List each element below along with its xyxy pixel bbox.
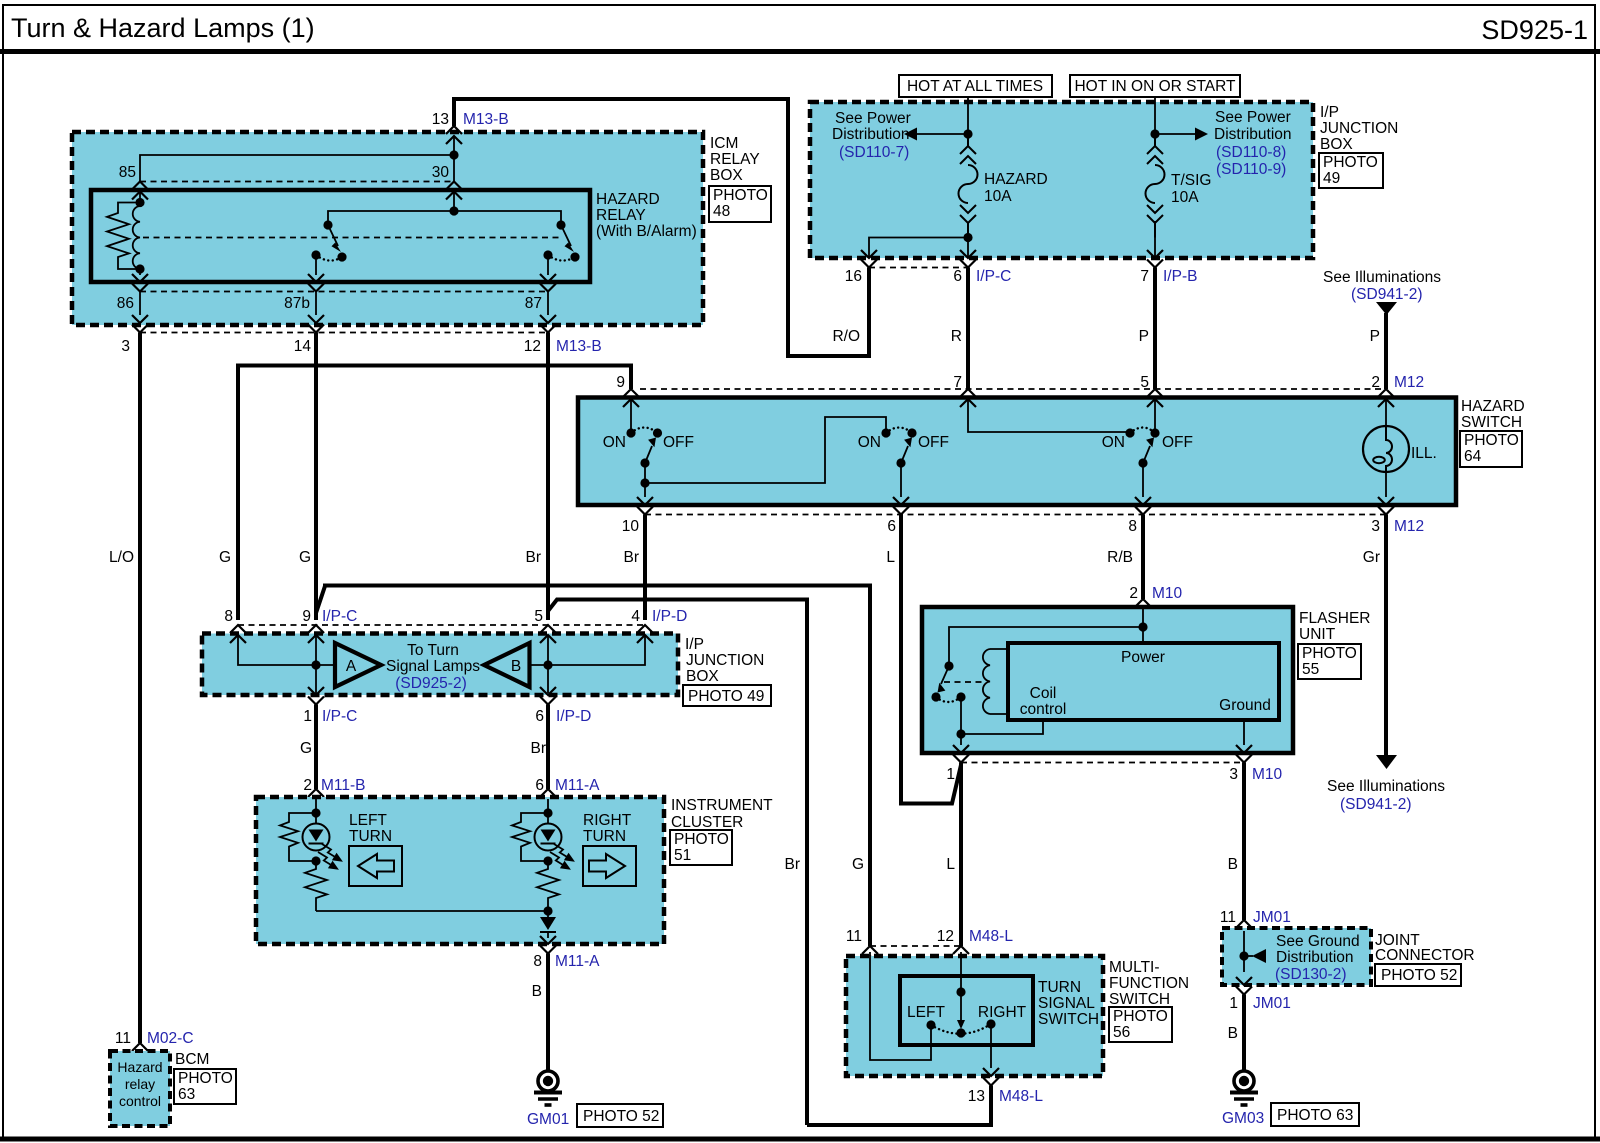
svg-text:BCM: BCM xyxy=(175,1051,209,1068)
svg-text:Br: Br xyxy=(526,549,542,566)
node coil top xyxy=(135,198,144,207)
left arrow icon xyxy=(349,846,402,886)
arrow see power distribution SD110-8/9 xyxy=(1195,128,1208,141)
node hazard fuse output xyxy=(963,233,972,242)
photo 55 box xyxy=(1298,644,1361,679)
switch 3 OFF contact xyxy=(1150,428,1159,437)
wire B flasher pin3 to joint connector xyxy=(1242,763,1246,921)
wire pin30 into relay xyxy=(453,192,455,211)
svg-text:Distribution: Distribution xyxy=(1276,949,1354,966)
node output xyxy=(543,906,552,915)
switch 2 arm pivot xyxy=(896,458,905,467)
arrow see ground distribution xyxy=(1252,949,1266,963)
svg-text:1: 1 xyxy=(1229,995,1238,1012)
node t/sig feed xyxy=(1150,129,1159,138)
svg-text:14: 14 xyxy=(294,338,312,355)
wire pin13 to Br riser xyxy=(807,1086,991,1126)
svg-text:8: 8 xyxy=(224,608,233,625)
LED left turn xyxy=(303,824,330,851)
flasher inner module box xyxy=(1008,643,1279,720)
wire pin14 G to I/P pin 9 xyxy=(314,333,318,621)
svg-text:Gr: Gr xyxy=(1363,549,1380,566)
relay contact 87 xyxy=(543,250,552,259)
wire to diode xyxy=(547,908,549,917)
svg-text:I/P: I/P xyxy=(1320,104,1339,121)
I/P junction box (middle) enclosure xyxy=(202,634,678,696)
svg-text:L/O: L/O xyxy=(109,549,134,566)
connector pin 5 xyxy=(540,625,556,643)
svg-text:Distribution: Distribution xyxy=(832,126,910,143)
svg-text:(SD941-2): (SD941-2) xyxy=(1340,796,1412,813)
svg-text:UNIT: UNIT xyxy=(1299,626,1336,643)
svg-text:5: 5 xyxy=(1140,374,1149,391)
svg-text:FUNCTION: FUNCTION xyxy=(1109,975,1189,992)
svg-text:5: 5 xyxy=(534,608,543,625)
svg-text:R: R xyxy=(951,328,962,345)
wire contact to pin 87b xyxy=(315,255,317,275)
coil stubs to module xyxy=(990,649,1008,714)
svg-text:12: 12 xyxy=(937,928,954,945)
svg-text:I/P-C: I/P-C xyxy=(322,608,357,625)
wire switch3 to pin 8 xyxy=(1142,463,1144,497)
svg-text:RELAY: RELAY xyxy=(596,207,646,224)
svg-text:I/P-D: I/P-D xyxy=(652,608,687,625)
connector pin 3 M10 xyxy=(1236,745,1252,763)
node hazard feed xyxy=(963,129,972,138)
wire pin86 to ICM edge xyxy=(139,292,141,316)
photo 64 box xyxy=(1460,431,1522,467)
relay switch arm 1 xyxy=(328,225,338,246)
wire pin11 to node xyxy=(1243,931,1245,972)
wire left to right circuit xyxy=(316,910,548,912)
HOT IN ON OR START box xyxy=(1070,75,1240,97)
connector pin 8 M11-A xyxy=(540,936,556,954)
svg-text:9: 9 xyxy=(302,608,311,625)
svg-text:Br: Br xyxy=(624,549,640,566)
wire R/B pin8 to flasher xyxy=(1141,515,1145,600)
svg-text:M12: M12 xyxy=(1394,374,1424,391)
svg-text:OFF: OFF xyxy=(1162,434,1193,451)
connector pin 7 xyxy=(960,389,976,407)
node B junction xyxy=(543,660,552,669)
LEFT contact xyxy=(926,1020,935,1029)
svg-text:55: 55 xyxy=(1302,661,1319,678)
arrow see power distribution SD110-7 xyxy=(904,128,917,141)
svg-text:OFF: OFF xyxy=(663,434,694,451)
svg-text:LEFT: LEFT xyxy=(907,1004,945,1021)
fuse T/SIG 10A xyxy=(1146,134,1165,238)
resistor parallel left xyxy=(280,813,316,861)
svg-text:10A: 10A xyxy=(1171,189,1199,206)
node coil control xyxy=(956,729,965,738)
wire relay common rail xyxy=(328,211,561,225)
svg-text:HAZARD: HAZARD xyxy=(596,191,660,208)
wire pin9 riser xyxy=(315,636,317,693)
svg-text:I/P-B: I/P-B xyxy=(1163,268,1197,285)
svg-text:TURN: TURN xyxy=(583,828,626,845)
switch 1: wire pin9 to ON contact xyxy=(630,399,632,433)
node power xyxy=(1138,622,1147,631)
connector pin 16 xyxy=(861,250,877,268)
svg-text:10: 10 xyxy=(622,518,640,535)
svg-text:BOX: BOX xyxy=(710,167,743,184)
svg-text:9: 9 xyxy=(616,374,625,391)
photo 52 box (joint connector) xyxy=(1375,964,1461,986)
photo 52 box (GM01) xyxy=(577,1104,663,1127)
wire switch2 to pin 6 xyxy=(900,463,902,497)
connector pin 87b xyxy=(308,274,324,292)
node bottom left xyxy=(311,856,320,865)
wire to power distribution right xyxy=(1155,133,1196,135)
svg-text:PHOTO 52: PHOTO 52 xyxy=(583,1108,659,1125)
flasher coil xyxy=(983,649,990,714)
wire P fuse to hazard switch pin 5 xyxy=(1153,268,1157,390)
svg-text:M11-B: M11-B xyxy=(321,777,366,794)
svg-text:SIGNAL: SIGNAL xyxy=(1038,995,1095,1012)
title separator rule xyxy=(0,49,1600,54)
connector pin 5 xyxy=(1147,389,1163,407)
wire L flasher pin1 to turn signal switch pin 12 xyxy=(959,763,963,947)
svg-text:(SD941-2): (SD941-2) xyxy=(1351,286,1423,303)
svg-text:(SD925-2): (SD925-2) xyxy=(395,675,467,692)
svg-text:OFF: OFF xyxy=(918,434,949,451)
switch 3: wire pin7 to ON contact xyxy=(968,399,1130,433)
svg-text:RIGHT: RIGHT xyxy=(583,812,632,829)
switch 2 dotted arc xyxy=(886,428,912,434)
wire hazard switch pin9 feed (horizontal) xyxy=(238,366,631,621)
wire jog pin9 branch to G riser xyxy=(316,586,870,947)
flasher dotted arc xyxy=(936,697,961,702)
illumination lamp wire top xyxy=(1385,399,1387,426)
wire L pin6 down xyxy=(901,515,961,804)
wire hot feed to t/sig fuse xyxy=(1154,97,1156,134)
switch 2 ON contact xyxy=(881,428,890,437)
connector pin 1 I/P-C xyxy=(308,687,324,705)
wire Gr pin3 to illuminations xyxy=(1384,515,1388,757)
svg-text:3: 3 xyxy=(1371,518,1380,535)
arm center contact xyxy=(956,1028,965,1037)
connector pin 10 xyxy=(637,497,653,515)
connector pin 1 JM01 xyxy=(1236,977,1252,995)
switch 3 arm pivot xyxy=(1138,458,1147,467)
instrument cluster enclosure xyxy=(256,797,664,944)
switch 3 arm xyxy=(1143,446,1150,463)
connector pin 13 M13-B xyxy=(446,126,462,144)
switch 3 dotted arc xyxy=(1130,428,1155,434)
photo 63 box (GM03) xyxy=(1271,1103,1359,1126)
flasher switch fixed contact xyxy=(944,661,953,670)
svg-text:P: P xyxy=(1139,328,1149,345)
relay internal dashed actuation line xyxy=(143,237,560,239)
svg-text:RIGHT: RIGHT xyxy=(978,1004,1027,1021)
svg-text:GM03: GM03 xyxy=(1222,1110,1264,1127)
illumination lamp wire bottom xyxy=(1385,473,1387,498)
svg-text:PHOTO 52: PHOTO 52 xyxy=(1381,967,1457,984)
svg-text:(SD130-2): (SD130-2) xyxy=(1275,966,1347,983)
connector pin 87 xyxy=(540,274,556,292)
svg-text:13: 13 xyxy=(968,1088,985,1105)
BCM enclosure xyxy=(110,1051,170,1126)
wire pin87b to ICM edge xyxy=(315,292,317,316)
switch 2 OFF contact xyxy=(907,428,916,437)
svg-text:PHOTO: PHOTO xyxy=(178,1070,233,1087)
ground GM01 xyxy=(534,1071,562,1105)
svg-text:1: 1 xyxy=(303,708,312,725)
svg-text:11: 11 xyxy=(1220,909,1236,926)
node switch1 output xyxy=(640,478,649,487)
flasher actuation dashed link xyxy=(944,681,983,683)
photo 48 box xyxy=(709,186,771,222)
svg-text:B: B xyxy=(511,658,521,675)
svg-text:BOX: BOX xyxy=(686,668,719,685)
svg-text:G: G xyxy=(219,549,231,566)
wire contact to coil-control node xyxy=(960,697,962,734)
hazard relay outline xyxy=(91,190,590,282)
diode xyxy=(540,917,556,930)
node bottom right xyxy=(543,856,552,865)
flasher contact right xyxy=(956,692,965,701)
turn signal dotted arc xyxy=(931,1024,991,1034)
svg-text:8: 8 xyxy=(1128,518,1137,535)
svg-text:control: control xyxy=(119,1093,161,1109)
svg-text:M13-B: M13-B xyxy=(556,338,602,355)
wire module ground to pin 3 xyxy=(1243,720,1245,745)
svg-text:Ground: Ground xyxy=(1219,697,1271,714)
svg-text:51: 51 xyxy=(674,847,691,864)
wire node to triangle A xyxy=(316,664,335,666)
wire B to ground GM01 xyxy=(546,954,550,1072)
connector pin 9 I/P-C xyxy=(308,625,324,643)
svg-text:Coil: Coil xyxy=(1030,685,1057,702)
node top right xyxy=(543,808,552,817)
connector pin 11 M02-C xyxy=(132,1043,148,1061)
connector pin 11 JM01 xyxy=(1236,920,1252,938)
svg-text:GM01: GM01 xyxy=(527,1111,569,1128)
connector pin 8 xyxy=(1135,497,1151,515)
svg-text:control: control xyxy=(1020,701,1067,718)
svg-text:(SD110-7): (SD110-7) xyxy=(839,144,909,161)
photo 63 box (BCM) xyxy=(174,1069,236,1104)
LED right turn xyxy=(535,824,562,851)
svg-text:PHOTO 63: PHOTO 63 xyxy=(1277,1107,1353,1124)
svg-text:HOT AT ALL TIMES: HOT AT ALL TIMES xyxy=(907,78,1043,95)
svg-text:7: 7 xyxy=(1140,268,1149,285)
svg-text:49: 49 xyxy=(1323,170,1340,187)
right arrow icon xyxy=(583,846,636,886)
illumination lamp ILL xyxy=(1363,426,1409,472)
svg-text:See Power: See Power xyxy=(1215,109,1291,126)
svg-text:M10: M10 xyxy=(1152,585,1183,602)
connector pin 9 xyxy=(623,389,639,407)
relay coil xyxy=(133,203,140,270)
wire G to instrument cluster pin 2 xyxy=(314,705,318,790)
connector pin 14 xyxy=(308,315,324,333)
svg-text:SWITCH: SWITCH xyxy=(1461,414,1522,431)
svg-text:11: 11 xyxy=(846,928,862,945)
node coil bottom xyxy=(135,264,144,273)
svg-text:JUNCTION: JUNCTION xyxy=(686,652,764,669)
svg-text:PHOTO: PHOTO xyxy=(1113,1008,1168,1025)
svg-text:12: 12 xyxy=(524,338,541,355)
svg-text:See Illuminations: See Illuminations xyxy=(1327,778,1445,795)
svg-text:Distribution: Distribution xyxy=(1214,126,1292,143)
svg-text:To Turn: To Turn xyxy=(407,642,459,659)
svg-text:16: 16 xyxy=(845,268,862,285)
joint connector enclosure xyxy=(1222,928,1371,985)
svg-text:MULTI-: MULTI- xyxy=(1109,959,1160,976)
resistor parallel right xyxy=(512,813,548,861)
connector pin 12 M48-L xyxy=(953,946,969,964)
svg-text:Br: Br xyxy=(531,740,547,757)
arrow from illuminations xyxy=(1376,302,1397,315)
wire junction to pin 85 xyxy=(140,155,454,182)
connector pin 3 M12 xyxy=(1378,497,1394,515)
connector pin 3 xyxy=(132,315,148,333)
flasher unit box xyxy=(922,607,1293,753)
relay arc 2 xyxy=(548,255,575,261)
wire power node to switch xyxy=(949,627,1143,666)
svg-text:4: 4 xyxy=(631,608,640,625)
relay arc 1 xyxy=(316,255,342,261)
svg-text:I/P-C: I/P-C xyxy=(322,708,357,725)
wire node to pin 1 xyxy=(960,734,962,745)
svg-text:M12: M12 xyxy=(1394,518,1424,535)
connector pin 2 M11-B xyxy=(308,789,324,807)
flasher switch arm xyxy=(941,666,949,684)
wire pin85 into relay xyxy=(139,192,141,203)
wire switch1 to pin 10 xyxy=(644,483,646,497)
triangle A (to turn signal lamps) xyxy=(335,643,381,687)
connector pin 86 xyxy=(132,274,148,292)
svg-text:3: 3 xyxy=(1229,766,1238,783)
right turn lamp circuit: entry wire xyxy=(547,799,549,824)
connector dashed line top xyxy=(238,624,645,626)
wire R fuse to hazard switch pin 7 xyxy=(966,268,970,390)
svg-text:M13-B: M13-B xyxy=(463,111,509,128)
wire pin13 to I/P box pin16 (thick) xyxy=(454,99,869,356)
svg-text:I/P: I/P xyxy=(685,636,704,653)
switch 1 arm pivot xyxy=(640,458,649,467)
svg-text:63: 63 xyxy=(178,1086,195,1103)
svg-text:PHOTO 49: PHOTO 49 xyxy=(688,688,764,705)
relay contact 2 fixed xyxy=(556,220,565,229)
svg-text:SWITCH: SWITCH xyxy=(1038,1011,1099,1028)
wire jog pin5 branch to Br riser xyxy=(548,600,807,1126)
connector pin 85 xyxy=(132,182,148,200)
svg-text:M02-C: M02-C xyxy=(147,1030,194,1047)
svg-text:Power: Power xyxy=(1121,649,1165,666)
wire RIGHT contact to pin 13 xyxy=(990,1024,992,1068)
RIGHT contact xyxy=(986,1019,995,1028)
turn signal switch box xyxy=(900,976,1033,1045)
svg-text:6: 6 xyxy=(535,708,544,725)
fuse HAZARD 10A xyxy=(959,134,978,238)
light arrows right xyxy=(550,844,573,869)
svg-text:PHOTO: PHOTO xyxy=(713,187,768,204)
connector dashed line pins 11-12 xyxy=(870,945,961,947)
svg-text:I/P-D: I/P-D xyxy=(556,708,591,725)
node junction pin13/85/30 xyxy=(449,150,458,159)
relay contact 87b xyxy=(311,250,320,259)
wire pin12 Br to I/P pin 5 xyxy=(546,333,550,621)
svg-text:(SD110-9): (SD110-9) xyxy=(1216,161,1286,178)
switch 1 ON contact xyxy=(626,428,635,437)
connector pin 8 xyxy=(230,625,246,643)
svg-text:TURN: TURN xyxy=(349,828,392,845)
resistor (relay parallel resistor) xyxy=(107,203,140,270)
node A junction xyxy=(311,660,320,669)
svg-text:3: 3 xyxy=(121,338,130,355)
svg-text:P: P xyxy=(1370,328,1380,345)
svg-text:ILL.: ILL. xyxy=(1411,445,1437,462)
connector pin 13 M48-L xyxy=(983,1068,999,1086)
svg-text:Br: Br xyxy=(785,856,801,873)
svg-text:M11-A: M11-A xyxy=(555,953,600,970)
svg-text:PHOTO: PHOTO xyxy=(1464,432,1519,449)
multi-function switch enclosure xyxy=(846,956,1103,1076)
HOT AT ALL TIMES box xyxy=(899,75,1052,97)
wire node to triangle B xyxy=(530,664,549,666)
svg-text:relay: relay xyxy=(125,1076,155,1092)
svg-text:L: L xyxy=(886,549,895,566)
wire pin12 to arm xyxy=(960,952,962,992)
svg-text:48: 48 xyxy=(713,203,730,220)
svg-text:Signal Lamps: Signal Lamps xyxy=(386,658,480,675)
wire switch1 to switch2 ON xyxy=(645,417,886,483)
wire Br to instrument cluster pin 6 xyxy=(546,705,550,790)
switch 1 dotted arc xyxy=(631,428,658,434)
svg-text:ON: ON xyxy=(858,434,881,451)
node relay common xyxy=(449,206,458,215)
svg-text:2: 2 xyxy=(303,777,312,794)
svg-text:Turn & Hazard Lamps (1): Turn & Hazard Lamps (1) xyxy=(11,13,315,43)
ICM pin dashed line 3-12 xyxy=(140,332,548,334)
connector dashed line 16-6 xyxy=(869,267,968,269)
svg-text:HOT IN ON OR START: HOT IN ON OR START xyxy=(1074,78,1236,95)
svg-text:(With B/Alarm): (With B/Alarm) xyxy=(596,223,697,240)
relay switch arm 2 xyxy=(561,225,571,246)
wire Br pin10 to I/P pin 4 xyxy=(643,515,647,621)
wire coil to pin 86 xyxy=(139,269,141,275)
svg-text:T/SIG: T/SIG xyxy=(1171,172,1211,189)
relay contact 1 fixed xyxy=(323,220,332,229)
svg-text:SWITCH: SWITCH xyxy=(1109,991,1170,1008)
wire fuse output to pin 16 xyxy=(869,238,968,258)
wire pin87 to ICM edge xyxy=(547,292,549,316)
wire hot feed to hazard fuse xyxy=(967,97,969,134)
svg-text:PHOTO: PHOTO xyxy=(1323,154,1378,171)
svg-text:R/B: R/B xyxy=(1107,549,1133,566)
triangle B (to turn signal lamps) xyxy=(484,643,530,687)
connector pin 7 I/P-B xyxy=(1147,250,1163,268)
svg-text:I/P-C: I/P-C xyxy=(976,268,1011,285)
resistor lower right xyxy=(537,861,559,908)
svg-text:B: B xyxy=(1228,856,1238,873)
bottom frame thick border xyxy=(0,1137,1600,1142)
svg-text:JUNCTION: JUNCTION xyxy=(1320,120,1398,137)
svg-text:INSTRUMENT: INSTRUMENT xyxy=(671,797,773,814)
connector pin 11 xyxy=(862,946,878,964)
switch 1 OFF contact xyxy=(653,428,662,437)
svg-text:SD925-1: SD925-1 xyxy=(1481,15,1588,45)
switch 3 ON contact xyxy=(1125,428,1134,437)
wire P illuminations to hazard switch pin 2 xyxy=(1384,313,1388,389)
svg-text:R/O: R/O xyxy=(832,328,860,345)
connector pin 6 I/P-D xyxy=(540,687,556,705)
svg-text:PHOTO: PHOTO xyxy=(1302,645,1357,662)
svg-text:LEFT: LEFT xyxy=(349,812,387,829)
I/P junction box enclosure xyxy=(810,102,1313,258)
